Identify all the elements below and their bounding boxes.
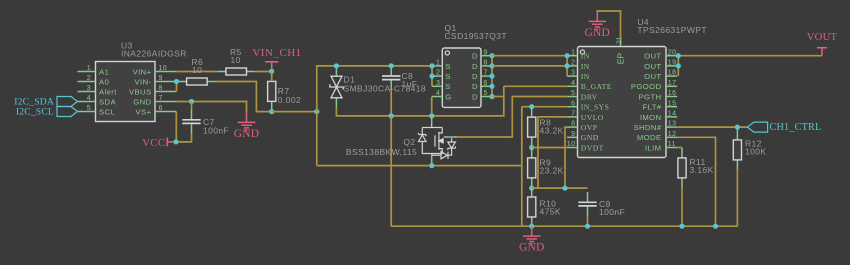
U4 pin 18 OUT (644, 70, 677, 81)
U3 pin 9 VIN- (135, 75, 177, 86)
wire C8 bottom down to ground rail (390, 116, 392, 226)
U4 pin 9 GND (567, 131, 599, 142)
wire MODE down to rail (677, 137, 715, 226)
svg-text:20: 20 (668, 49, 677, 56)
svg-text:ILIM: ILIM (645, 143, 662, 152)
hierarchical label I2C_SCL (16, 107, 78, 118)
svg-text:8: 8 (484, 60, 488, 67)
ground bottom (523, 226, 541, 244)
svg-text:Q2: Q2 (403, 137, 415, 147)
ground near C7 (238, 113, 256, 131)
wire R6 right jog down to R7 bottom (216, 82, 272, 112)
resistor R11 (678, 148, 686, 189)
svg-text:1: 1 (436, 60, 440, 67)
svg-text:D: D (472, 92, 478, 101)
svg-text:I2C_SCL: I2C_SCL (16, 107, 54, 118)
wire VBUS to VIN- node (176, 82, 178, 92)
svg-text:6: 6 (571, 100, 575, 107)
node D1 top junction (334, 63, 339, 68)
capacitor C9 (578, 192, 596, 217)
U4 pin 12 MODE (637, 131, 677, 142)
svg-text:18: 18 (668, 70, 677, 77)
svg-text:100nF: 100nF (599, 207, 625, 217)
U4 pin 20 OUT (644, 49, 677, 60)
svg-text:5: 5 (87, 105, 91, 112)
node Q1 D tie (489, 53, 494, 58)
resistor R8 (528, 107, 536, 148)
wire OVP down to C9 line (565, 127, 567, 188)
wire EP to ground (597, 11, 620, 40)
transistor Q1 body (442, 48, 481, 107)
U4 pin 19 OUT (644, 60, 677, 71)
svg-text:SDA: SDA (99, 97, 116, 106)
U3 pin 4 SDA (78, 95, 117, 106)
svg-text:IMON: IMON (640, 113, 662, 122)
transistor Q2 BSS138BKW (419, 116, 459, 166)
wire junction to C9 top (532, 187, 588, 189)
svg-text:VIN+: VIN+ (133, 67, 152, 76)
svg-text:475K: 475K (540, 207, 561, 217)
svg-text:13: 13 (668, 121, 677, 128)
svg-text:VIN-: VIN- (135, 77, 152, 86)
svg-text:OVP: OVP (581, 123, 598, 132)
svg-text:2: 2 (436, 70, 440, 77)
node C8 top junction (389, 63, 394, 68)
node C8 bottom junction (389, 113, 394, 118)
svg-text:7: 7 (159, 95, 163, 102)
node Q1 D tie (489, 94, 494, 99)
svg-text:PGTH: PGTH (639, 92, 662, 101)
wire divider tap to DVDT (532, 147, 567, 149)
node R10 bottom / GND (529, 224, 534, 229)
U3 pin 1 A1 (78, 65, 110, 76)
Q1 pin 8 D (472, 60, 492, 71)
wire C8 bottom to drain line (390, 90, 392, 116)
wire UVLO to R9/R10 junction (532, 117, 567, 188)
node MODE rail (713, 224, 718, 229)
svg-text:9: 9 (159, 75, 163, 82)
hierarchical label I2C_SDA (14, 97, 77, 108)
svg-text:10: 10 (159, 65, 168, 72)
svg-text:GND: GND (581, 133, 599, 142)
svg-text:43.2K: 43.2K (540, 125, 564, 135)
Q1 pin 2 S (432, 70, 451, 81)
U4 pin 16 PGTH (639, 90, 678, 101)
wire Q1 gate down to Q2 drain (431, 97, 433, 116)
svg-text:SCL: SCL (99, 107, 115, 116)
Q1 pin 1 S (432, 60, 451, 71)
svg-text:CSD19537Q3T: CSD19537Q3T (445, 31, 508, 41)
svg-text:IN: IN (581, 72, 590, 81)
svg-text:S: S (445, 72, 451, 81)
svg-text:IN: IN (581, 52, 590, 61)
svg-text:Alert: Alert (99, 87, 117, 96)
node C9 bottom (585, 224, 590, 229)
svg-text:OUT: OUT (644, 52, 661, 61)
U3 pin 5 SCL (78, 105, 116, 116)
svg-text:0.002: 0.002 (278, 95, 301, 105)
node Q1 S2 (429, 74, 434, 79)
U4 pin 11 ILIM (645, 141, 677, 152)
svg-text:2: 2 (571, 60, 575, 67)
U4 pin 15 FLT# (643, 100, 678, 111)
node VCC junction (173, 139, 178, 144)
U4 pin 13 SHDN# (633, 121, 677, 132)
U4 pin 1 IN (567, 49, 590, 60)
svg-text:6: 6 (159, 105, 163, 112)
node U4 IN1 (565, 53, 570, 58)
svg-text:23.2K: 23.2K (540, 165, 564, 175)
wire down to C7 (191, 102, 193, 110)
svg-text:100nF: 100nF (203, 126, 229, 136)
U4 pin 5 DRV (567, 90, 598, 101)
svg-text:8: 8 (159, 85, 163, 92)
wire U4 OUT pins vertical (677, 56, 679, 76)
svg-text:10: 10 (192, 65, 202, 75)
node Q1 D tie (489, 74, 494, 79)
svg-text:5: 5 (484, 90, 488, 97)
svg-text:DVDT: DVDT (581, 143, 604, 152)
node R8/R9 junction (529, 145, 534, 150)
node Q1 gate / Q2 drain (429, 113, 434, 118)
node Q1 S1 (429, 63, 434, 68)
U4 pin1 indicator (580, 50, 584, 54)
wire U4 IN pins vertical (566, 56, 568, 76)
svg-text:MODE: MODE (637, 133, 662, 142)
node VIN_CH1 junction (269, 69, 274, 74)
U4 pin 14 IMON (640, 111, 677, 122)
svg-text:GND: GND (234, 128, 260, 140)
svg-text:3: 3 (571, 70, 575, 77)
U3 pin 7 GND (133, 95, 176, 106)
svg-text:8: 8 (571, 121, 575, 128)
wire Q1 drain to U4 IN (top) (492, 55, 567, 57)
svg-text:7: 7 (484, 70, 488, 77)
node OVP tap (562, 186, 567, 191)
node Q1 D tie (489, 84, 494, 89)
svg-text:4: 4 (436, 90, 440, 97)
node R8 top (529, 104, 534, 109)
op-amp U4 body (578, 47, 667, 158)
resistor R6 (178, 78, 215, 85)
node VIN- junction (174, 79, 179, 84)
svg-text:1: 1 (571, 49, 575, 56)
svg-text:1: 1 (87, 65, 91, 72)
svg-text:4: 4 (87, 95, 91, 102)
svg-text:BSS138BKW,115: BSS138BKW,115 (346, 147, 417, 157)
svg-text:14: 14 (668, 111, 677, 118)
svg-text:3: 3 (436, 80, 440, 87)
wire to U4 B_GATE (504, 85, 567, 87)
resistor R7 (268, 71, 276, 112)
resistor R9 (528, 148, 536, 189)
resistor R12 (733, 130, 741, 171)
svg-text:GND: GND (585, 27, 611, 39)
wire ground rail (391, 225, 737, 227)
svg-text:5: 5 (571, 90, 575, 97)
svg-text:OUT: OUT (644, 62, 661, 71)
wire C9 bottom to rail (587, 217, 589, 227)
node Q1 D tie (489, 63, 494, 68)
svg-text:16: 16 (668, 90, 677, 97)
svg-text:GND: GND (133, 97, 151, 106)
wire vertical to ground rail (521, 107, 523, 227)
svg-text:IN_SYS: IN_SYS (581, 103, 609, 112)
svg-text:VOUT: VOUT (807, 31, 838, 43)
Q1 pin 6 D (472, 80, 492, 91)
svg-text:2: 2 (87, 75, 91, 82)
svg-text:1uF: 1uF (402, 79, 418, 89)
wire R7 bottom to sense vertical (272, 111, 317, 113)
svg-text:VCC: VCC (142, 137, 165, 149)
capacitor C8 (382, 66, 400, 91)
svg-text:9: 9 (571, 131, 575, 138)
node R11 rail (679, 224, 684, 229)
svg-text:D: D (472, 52, 478, 61)
svg-text:6: 6 (484, 80, 488, 87)
wire Q1 D pins vertical (491, 56, 493, 97)
svg-text:PGOOD: PGOOD (631, 82, 662, 91)
node U4 OUT2 (676, 63, 681, 68)
svg-text:D: D (472, 62, 478, 71)
wire R5 to VIN_CH1 node (255, 71, 272, 73)
U3 pin 10 VIN+ (133, 65, 177, 76)
svg-text:12: 12 (668, 131, 677, 138)
svg-text:A0: A0 (99, 77, 109, 86)
svg-text:D: D (472, 72, 478, 81)
Q1 pin 3 S (432, 80, 451, 91)
wire sense vertical + top rail (317, 66, 432, 166)
wire Q1 S pins vertical (431, 66, 433, 86)
svg-text:100K: 100K (745, 147, 766, 157)
svg-text:9: 9 (484, 49, 488, 56)
svg-text:SHDN#: SHDN# (633, 123, 661, 132)
svg-text:10: 10 (567, 141, 576, 148)
node R7 bottom junction (269, 109, 274, 114)
svg-text:G: G (445, 92, 451, 101)
U4 pin 2 IN (567, 60, 590, 71)
node Q2 source junction (429, 163, 434, 168)
U3 pin 6 VS+ (136, 105, 177, 116)
wire VIN- to R6 (177, 81, 179, 83)
U4 pin 8 OVP (567, 121, 597, 132)
op-amp U3 body (96, 62, 156, 122)
power flag VIN_CH1 (252, 47, 301, 71)
svg-text:CH1_CTRL: CH1_CTRL (770, 122, 822, 133)
svg-text:IN: IN (581, 62, 590, 71)
resistor R5 (218, 68, 255, 75)
svg-text:3: 3 (87, 85, 91, 92)
node R9/R10 junction (529, 186, 534, 191)
Q1 pin 4 G (432, 90, 452, 101)
svg-text:17: 17 (668, 80, 677, 87)
node U4 IN2 (565, 63, 570, 68)
wire drain line D1-C8-Q2 up to B_GATE (336, 86, 503, 116)
svg-text:UVLO: UVLO (581, 113, 604, 122)
wire VIN+ to R5 (176, 71, 217, 73)
svg-text:15: 15 (668, 100, 677, 107)
wire Q1 drain to U4 IN (second) (492, 65, 567, 67)
U3 pin 8 VBUS (129, 85, 176, 96)
wire U3 GND pin to ground (176, 102, 246, 113)
power flag VCC (142, 137, 176, 149)
wire VIN_CH1 to R7 top (271, 71, 273, 81)
wire R11 bottom to rail (681, 188, 683, 226)
node C7 top junction (189, 99, 194, 104)
svg-text:VIN_CH1: VIN_CH1 (252, 47, 301, 59)
svg-text:D: D (472, 82, 478, 91)
hierarchical label CH1_CTRL (747, 122, 821, 133)
U4 pin 10 DVDT (567, 141, 604, 152)
wire C7 bottom to VCC node (176, 134, 192, 142)
wire R12 bottom to rail (736, 170, 738, 226)
svg-text:DRV: DRV (581, 92, 598, 101)
svg-text:A1: A1 (99, 67, 109, 76)
diode D1 TVS (330, 66, 343, 108)
svg-text:EP: EP (615, 53, 625, 65)
wire SHDN# to CH1_CTRL (677, 126, 747, 128)
svg-text:INA226AIDGSR: INA226AIDGSR (121, 49, 187, 59)
U4 pin 6 IN_SYS (567, 100, 609, 111)
wire IN_SYS horizontal (522, 106, 567, 108)
svg-text:FLT#: FLT# (643, 103, 662, 112)
svg-text:OUT: OUT (644, 72, 661, 81)
U4 pin 17 PGOOD (631, 80, 677, 91)
svg-text:4: 4 (571, 80, 575, 87)
svg-text:S: S (445, 62, 451, 71)
svg-text:11: 11 (668, 141, 676, 148)
wire Q2 gate to DRV (458, 97, 567, 138)
Q1 pin 7 D (472, 70, 492, 81)
U4 pin 3 IN (567, 70, 590, 81)
U4 pin 7 UVLO (567, 111, 604, 122)
svg-text:3.16K: 3.16K (690, 165, 714, 175)
svg-text:B_GATE: B_GATE (581, 82, 612, 91)
capacitor C7 (182, 109, 200, 134)
U3 pin 3 Alert (78, 85, 118, 96)
wire Q2 source rail (317, 165, 522, 167)
svg-text:7: 7 (571, 111, 575, 118)
svg-text:S: S (445, 82, 451, 91)
svg-text:VS+: VS+ (136, 107, 152, 116)
power flag VOUT (807, 31, 838, 56)
node R12 top (735, 125, 740, 130)
U3 pin 2 A0 (78, 75, 110, 86)
svg-text:TPS26631PWPT: TPS26631PWPT (637, 25, 707, 35)
resistor R10 (528, 187, 536, 228)
Q1 pin1 indicator (445, 51, 449, 55)
svg-text:10: 10 (231, 55, 241, 65)
svg-text:VBUS: VBUS (129, 87, 152, 96)
wire ILIM to R11 (677, 147, 682, 149)
node U4 OUT1 (676, 53, 681, 58)
Q1 pin 5 D (472, 90, 492, 101)
wire OUT to VOUT (677, 55, 822, 57)
svg-text:GND: GND (519, 242, 545, 254)
U4 pin 4 B_GATE (567, 80, 612, 91)
wire VS+ down to VCC node (175, 112, 177, 142)
wire Q1 D to B_GATE vertical (492, 96, 504, 98)
node sense junction (314, 109, 319, 114)
ground above U4 (589, 12, 607, 30)
Q1 pin 9 D (472, 49, 492, 60)
svg-text:19: 19 (668, 60, 677, 67)
U4 pin 21 EP (615, 36, 625, 64)
